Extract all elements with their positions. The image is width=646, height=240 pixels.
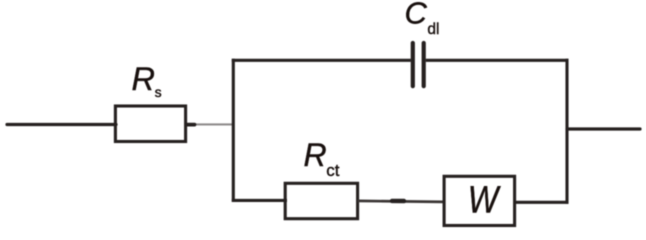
wire top-left to capacitor — [232, 59, 411, 62]
wire W to node B — [515, 201, 569, 204]
junction blob at R_s output — [187, 123, 195, 127]
svg-text:W: W — [468, 179, 502, 221]
wire output right — [567, 127, 640, 130]
svg-text:s: s — [155, 84, 162, 100]
resistor R_s — [115, 106, 185, 142]
junction blob between R_ct and W — [392, 199, 404, 204]
svg-text:R: R — [132, 61, 155, 97]
svg-text:R: R — [304, 137, 327, 173]
resistor R_ct — [285, 183, 357, 218]
wire input left — [7, 123, 116, 126]
wire capacitor to top-right — [426, 59, 569, 62]
svg-text:C: C — [405, 0, 428, 31]
Warburg element W box — [444, 176, 514, 225]
capacitor C_dl plates — [411, 43, 415, 86]
svg-text:dl: dl — [427, 21, 439, 38]
wire R_s to node A (gray) — [188, 123, 233, 125]
wire bottom-left to R_ct — [232, 199, 287, 202]
svg-text:ct: ct — [326, 161, 340, 180]
wire R_ct to W — [358, 201, 445, 202]
node A : left vertical of parallel loop — [232, 59, 235, 202]
node B : right vertical of parallel loop — [565, 59, 568, 204]
